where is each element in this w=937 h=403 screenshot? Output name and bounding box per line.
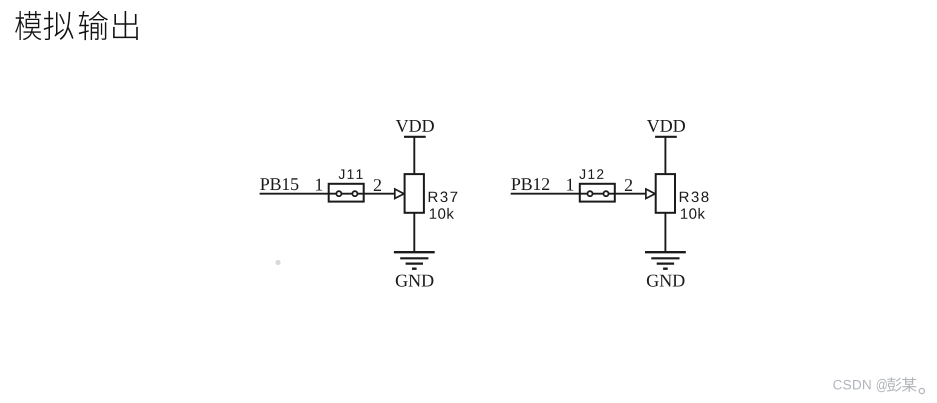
jumper J11 body xyxy=(329,184,364,202)
net label PB15 xyxy=(260,178,298,190)
wiper arrow of R38 xyxy=(646,189,655,199)
wire VDD to R38 top xyxy=(664,137,666,174)
wire R38 bottom to ground xyxy=(664,213,666,252)
ground symbol xyxy=(645,252,686,269)
wire inside jumper J12 xyxy=(580,193,615,195)
pin number 1 of J11 xyxy=(316,179,322,191)
net label PB12 xyxy=(511,178,549,190)
watermark CSDN @彭某。 xyxy=(833,377,924,393)
wire PB15 to J11 pin1 xyxy=(260,193,330,195)
value label R38 xyxy=(680,192,709,203)
jumper J12 pad 1 xyxy=(588,191,593,196)
resistor R37 body xyxy=(405,174,424,213)
value label 10k xyxy=(430,208,454,219)
wiper arrow of R37 xyxy=(395,189,404,199)
net label VDD xyxy=(647,120,685,132)
refdes label J11 xyxy=(339,169,363,179)
net label GND xyxy=(647,275,685,287)
value label R37 xyxy=(429,192,458,203)
jumper J11 pad 2 xyxy=(352,191,357,196)
wire PB12 to J12 pin1 xyxy=(511,193,581,195)
pin number 1 of J12 xyxy=(567,179,573,191)
wire inside jumper J11 xyxy=(329,193,364,195)
pin number 2 of J12 xyxy=(625,179,632,191)
refdes label J12 xyxy=(579,169,603,179)
wire R37 bottom to ground xyxy=(413,213,415,252)
wire J11 pin2 to R37 wiper xyxy=(364,193,395,195)
jumper J11 pad 1 xyxy=(336,191,341,196)
wire VDD to R37 top xyxy=(413,137,415,174)
pin number 2 of J11 xyxy=(374,179,381,191)
power symbol VDD bar xyxy=(404,136,426,138)
power symbol VDD bar xyxy=(655,136,677,138)
net label VDD xyxy=(396,120,434,132)
resistor R38 body xyxy=(656,174,675,213)
jumper J12 body xyxy=(580,184,615,202)
value label 10k xyxy=(681,208,705,219)
ground symbol xyxy=(394,252,435,269)
title text 模拟输出 xyxy=(15,11,138,40)
wire J12 pin2 to R38 wiper xyxy=(615,193,646,195)
jumper J12 pad 2 xyxy=(604,191,609,196)
net label GND xyxy=(396,275,434,287)
faint smudge artifact xyxy=(275,260,280,265)
